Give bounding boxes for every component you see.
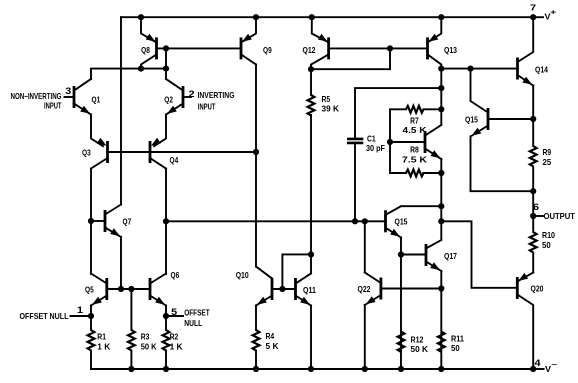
svg-text:Q7: Q7 (123, 216, 132, 226)
resistor R8 (390, 145, 441, 177)
resistor R12 (398, 332, 429, 355)
wire Q12/Q13 base line (329, 47, 428, 49)
node R12 bottom (398, 366, 404, 372)
svg-text:Q8: Q8 (141, 45, 150, 55)
resistor R3 (128, 289, 157, 369)
node VBE base (387, 139, 393, 145)
svg-text:R4: R4 (266, 331, 275, 341)
svg-text:50: 50 (542, 240, 551, 250)
wire Q12 base-collector tie (311, 48, 390, 69)
label OUTPUT (544, 212, 576, 221)
junction on V+ rail (Q9) (253, 14, 259, 20)
wire Q2 emitter to Q4 (154, 115, 166, 147)
svg-text:Q12: Q12 (303, 45, 316, 55)
resistor R9 (530, 119, 552, 191)
transistor Q1 (74, 79, 100, 115)
svg-text:7: 7 (530, 3, 536, 13)
resistor R10 (530, 216, 555, 273)
wire Q2 collector to node (165, 48, 167, 79)
svg-text:7.5 K: 7.5 K (402, 155, 428, 165)
wire Q1 emitter to Q3 (91, 115, 103, 147)
node base tie (163, 45, 169, 51)
wire Q1 collector to node (91, 69, 166, 79)
wire Q13col to Q14 base (441, 68, 517, 70)
node Q17 collector tie (438, 218, 444, 224)
transistor Q13 (428, 17, 458, 124)
node R7 right (438, 106, 444, 112)
resistor R4 (253, 306, 280, 370)
resistor R1 (88, 330, 112, 369)
node R4 bottom (253, 366, 259, 372)
pin 3 lead (65, 86, 75, 97)
transistor Q7 (105, 205, 131, 238)
node Q13 collector (438, 66, 444, 72)
svg-text:Q15: Q15 (465, 114, 478, 124)
svg-text:1 K: 1 K (97, 341, 111, 351)
node Q22 emitter bottom (362, 366, 368, 372)
node R3 top (128, 286, 134, 292)
svg-text:2: 2 (189, 89, 195, 99)
node C1 bottom (352, 218, 358, 224)
wire Q6 emitter down (165, 306, 167, 331)
svg-text:R8: R8 (410, 145, 419, 155)
svg-text:Q11: Q11 (303, 285, 316, 295)
node Q7 emitter junction (118, 286, 124, 292)
svg-text:4: 4 (535, 358, 542, 368)
node pin 7 V+ (530, 3, 556, 22)
wire Q11 emitter down (310, 306, 312, 370)
transistor Q5 (85, 274, 107, 306)
node R3 bottom (128, 366, 134, 372)
svg-text:NULL: NULL (184, 319, 202, 328)
svg-text:R2: R2 (170, 332, 179, 342)
wire V+ left vertical (120, 17, 122, 204)
node R11 bottom (438, 366, 444, 372)
node offset null 5 (163, 313, 169, 319)
wire Q22 emitter down (364, 305, 366, 369)
svg-text:Q13: Q13 (444, 45, 457, 55)
transistor Q3 (82, 138, 108, 169)
wire Q5 emitter down (90, 306, 92, 331)
node Q15 collector junction2 (438, 203, 444, 209)
transistor Q8 (141, 17, 157, 68)
resistor R11 (438, 332, 464, 354)
svg-text:Q9: Q9 (263, 45, 272, 55)
svg-text:Q15: Q15 (395, 217, 408, 227)
svg-text:30 pF: 30 pF (366, 143, 385, 153)
wire input stage to Q15 base (166, 220, 386, 222)
svg-text:Q5: Q5 (85, 284, 94, 294)
transistor Q15 (driver) (386, 206, 408, 237)
svg-text:3: 3 (65, 86, 71, 96)
node output join (530, 188, 536, 194)
svg-text:R1: R1 (97, 332, 106, 342)
svg-text:39 K: 39 K (322, 104, 340, 114)
svg-text:Q10: Q10 (236, 270, 249, 280)
wire Q15 collector (401, 205, 441, 207)
node R2 bottom (163, 366, 169, 372)
svg-text:INPUT: INPUT (198, 103, 216, 112)
resistor R7 (390, 106, 441, 135)
svg-text:R5: R5 (322, 94, 331, 104)
wire Q7 base lead (91, 220, 105, 222)
node Q22 collector tie (362, 218, 368, 224)
wire V- rail (91, 368, 544, 370)
pin 6 lead (533, 215, 543, 217)
svg-text:50 K: 50 K (411, 344, 429, 354)
pin 1 lead (71, 305, 92, 316)
node Q14em/Q15base (530, 116, 536, 122)
wire Q5/Q6 base line (107, 288, 150, 290)
wire Q15 emitter down to output (471, 137, 534, 192)
transistor Q4 (150, 138, 178, 169)
node Q10/Q11 base (279, 286, 285, 292)
transistor Q11 (296, 274, 317, 306)
junction on V+ rail (Q8) (138, 14, 144, 20)
svg-text:R10: R10 (542, 230, 555, 240)
transistor Q15 (current limit) (465, 69, 488, 137)
svg-text:1: 1 (77, 305, 83, 315)
wire Q22 collector up (364, 221, 366, 272)
resistor R5 (308, 69, 340, 115)
wire R7R8 left vertical (389, 109, 391, 173)
transistor Q10 (236, 267, 272, 306)
label INVERTING INPUT (198, 91, 235, 112)
label NON-INVERTING INPUT (11, 92, 62, 110)
svg-text:R3: R3 (141, 332, 150, 342)
label OFFSET NULL right (184, 309, 210, 328)
node collector tie (163, 66, 169, 72)
svg-text:R9: R9 (543, 147, 552, 157)
wire Q20 base (441, 221, 517, 287)
node Q15 collector junction (467, 66, 473, 72)
wire C1 bottom (354, 143, 356, 221)
svg-text:+: + (550, 10, 556, 17)
svg-text:50: 50 (451, 343, 460, 353)
node Q4/Q6 collector (163, 218, 169, 224)
wire Q10/Q11 base (272, 288, 296, 290)
svg-text:Q2: Q2 (164, 95, 173, 105)
pin 5 lead (166, 307, 183, 317)
wire Q11 collector up to R5 (310, 115, 312, 274)
pin 2 lead (183, 89, 195, 99)
node Q12 base tie (387, 45, 393, 51)
transistor Q6 (150, 270, 179, 306)
svg-text:R11: R11 (451, 333, 464, 343)
svg-text:OFFSET NULL: OFFSET NULL (20, 312, 69, 321)
wire Q15 emitter down (400, 238, 402, 370)
svg-text:−: − (551, 362, 557, 369)
node Q8 collector (138, 66, 144, 72)
svg-text:6: 6 (533, 202, 539, 212)
svg-text:25: 25 (543, 157, 552, 167)
node pin 6 output (530, 202, 539, 219)
junction on V+ rail (Q13) (438, 14, 444, 20)
svg-text:Q14: Q14 (535, 64, 548, 74)
label OFFSET NULL left (20, 312, 69, 321)
node pin 4 V- (530, 358, 557, 374)
svg-text:INPUT: INPUT (44, 102, 62, 111)
transistor Q17 (401, 240, 457, 271)
svg-text:Q20: Q20 (531, 284, 544, 294)
wire Q22 base (381, 288, 441, 290)
node Q17em/Q22base/R11 (438, 285, 444, 291)
node Q9 col / Q3Q4 base (253, 149, 259, 155)
junction on V+ rail (Q12) (309, 14, 315, 20)
svg-text:5: 5 (171, 307, 177, 317)
svg-text:1 K: 1 K (170, 341, 184, 351)
node offset null 1 (88, 313, 94, 319)
transistor Q22 (358, 273, 381, 306)
wire Q17 emitter down (440, 271, 442, 369)
svg-text:Q4: Q4 (170, 155, 179, 165)
wire Q9 collector down to Q10 (255, 65, 257, 267)
node R8 right (438, 170, 444, 176)
svg-text:Q1: Q1 (92, 95, 101, 105)
wire C1 top (355, 88, 441, 139)
svg-text:Q6: Q6 (171, 270, 180, 280)
svg-text:OFFSET: OFFSET (184, 309, 210, 318)
wire V+ rail (121, 16, 543, 18)
svg-text:OUTPUT: OUTPUT (544, 212, 576, 221)
node Q15em/Q17base (398, 251, 404, 257)
wire vbe emitter down (440, 159, 442, 240)
transistor Q2 (164, 79, 183, 115)
wire Q11 base-collector tie (282, 254, 311, 289)
node C1 tap (438, 85, 444, 91)
node Q7 base (88, 218, 94, 224)
node Q11 emitter bottom (308, 366, 314, 372)
transistor Q14 (518, 17, 549, 85)
wire Q15 base (488, 118, 533, 120)
wire output vertical (532, 191, 534, 216)
wire Q4 collector down (165, 169, 167, 275)
transistor Q9 (241, 17, 272, 64)
svg-text:Q17: Q17 (444, 251, 457, 261)
node Q11 collector tie (308, 251, 314, 257)
svg-text:Q3: Q3 (82, 147, 91, 157)
transistor Q20 (517, 273, 543, 370)
transistor Q12 (303, 17, 329, 69)
wire Q3/Q4 base line (108, 151, 257, 153)
transistor Q-vbe (390, 125, 441, 159)
svg-text:5 K: 5 K (266, 341, 280, 351)
svg-text:NON−INVERTING: NON−INVERTING (11, 92, 62, 101)
svg-text:Q22: Q22 (358, 284, 371, 294)
svg-text:C1: C1 (367, 134, 376, 144)
capacitor C1 (347, 134, 385, 154)
svg-text:INVERTING: INVERTING (198, 91, 235, 100)
svg-text:50 K: 50 K (141, 341, 158, 351)
wire Q7 emitter down (120, 237, 122, 289)
resistor R2 (163, 330, 184, 369)
wire Q8/Q9 base line (157, 47, 242, 49)
wire Q3 collector down (90, 169, 92, 275)
svg-text:R12: R12 (411, 335, 424, 345)
wire Q14 emitter down (532, 86, 534, 120)
node Q12 collector (308, 66, 314, 72)
